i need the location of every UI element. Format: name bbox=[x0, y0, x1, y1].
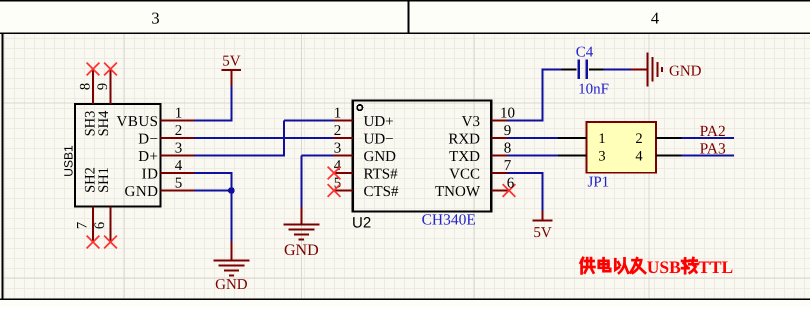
svg-text:GND: GND bbox=[669, 63, 702, 79]
svg-text:7: 7 bbox=[504, 158, 512, 174]
svg-text:VCC: VCC bbox=[449, 166, 480, 182]
svg-text:6: 6 bbox=[507, 176, 515, 192]
svg-text:C4: C4 bbox=[576, 44, 594, 60]
svg-text:UD−: UD− bbox=[364, 131, 394, 147]
svg-text:1: 1 bbox=[175, 106, 183, 122]
svg-text:5: 5 bbox=[175, 176, 183, 192]
svg-text:2: 2 bbox=[175, 123, 183, 139]
svg-text:TXD: TXD bbox=[449, 149, 480, 165]
svg-text:VBUS: VBUS bbox=[116, 114, 158, 130]
svg-text:3: 3 bbox=[334, 141, 342, 157]
svg-text:2: 2 bbox=[635, 131, 642, 147]
svg-text:ID: ID bbox=[142, 166, 159, 182]
svg-text:D+: D+ bbox=[138, 149, 158, 165]
svg-text:5V: 5V bbox=[222, 53, 241, 69]
svg-text:8: 8 bbox=[77, 83, 93, 90]
svg-text:CTS#: CTS# bbox=[364, 184, 400, 200]
svg-text:SH4: SH4 bbox=[96, 110, 112, 137]
svg-text:RTS#: RTS# bbox=[364, 166, 399, 182]
svg-text:4: 4 bbox=[635, 149, 643, 165]
svg-text:10nF: 10nF bbox=[578, 81, 609, 97]
svg-text:6: 6 bbox=[92, 222, 108, 229]
svg-text:9: 9 bbox=[95, 83, 111, 90]
svg-text:GND: GND bbox=[125, 184, 159, 200]
svg-text:9: 9 bbox=[504, 123, 512, 139]
svg-text:2: 2 bbox=[334, 123, 342, 139]
svg-text:10: 10 bbox=[500, 106, 515, 122]
svg-text:1: 1 bbox=[598, 131, 605, 147]
svg-text:SH1: SH1 bbox=[96, 167, 112, 193]
svg-text:U2: U2 bbox=[352, 215, 371, 232]
svg-text:USB: USB bbox=[647, 257, 681, 277]
svg-text:USB1: USB1 bbox=[62, 145, 76, 177]
svg-text:UD+: UD+ bbox=[364, 114, 394, 130]
svg-text:TNOW: TNOW bbox=[435, 184, 481, 200]
svg-text:3: 3 bbox=[151, 8, 159, 27]
svg-text:5V: 5V bbox=[533, 225, 552, 241]
svg-text:RXD: RXD bbox=[448, 131, 480, 147]
svg-text:PA3: PA3 bbox=[700, 141, 726, 158]
svg-text:PA2: PA2 bbox=[700, 123, 726, 140]
svg-text:GND: GND bbox=[364, 149, 397, 165]
svg-text:CH340E: CH340E bbox=[422, 212, 476, 229]
svg-text:JP1: JP1 bbox=[588, 175, 610, 191]
svg-text:4: 4 bbox=[175, 158, 183, 174]
svg-text:V3: V3 bbox=[462, 114, 480, 130]
svg-text:GND: GND bbox=[284, 242, 319, 259]
svg-text:8: 8 bbox=[504, 141, 512, 157]
svg-text:D−: D− bbox=[138, 131, 158, 147]
svg-text:3: 3 bbox=[175, 141, 183, 157]
svg-text:1: 1 bbox=[334, 106, 342, 122]
svg-text:4: 4 bbox=[651, 8, 659, 27]
svg-text:7: 7 bbox=[74, 222, 90, 229]
svg-text:GND: GND bbox=[215, 277, 248, 293]
svg-text:3: 3 bbox=[598, 149, 605, 165]
svg-text:TTL: TTL bbox=[698, 257, 733, 277]
